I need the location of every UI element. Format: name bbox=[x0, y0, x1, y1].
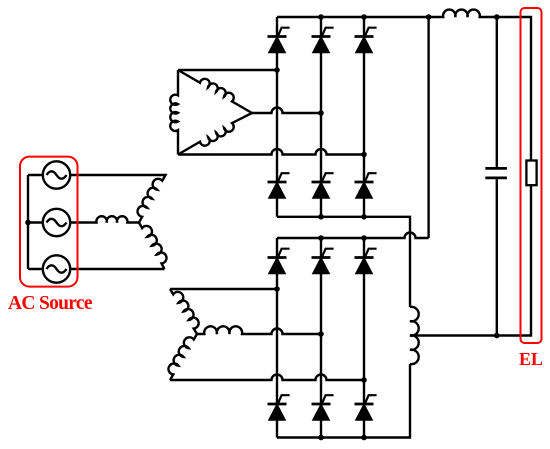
svg-text:AC Source: AC Source bbox=[8, 293, 93, 314]
svg-text:EL: EL bbox=[519, 349, 543, 369]
